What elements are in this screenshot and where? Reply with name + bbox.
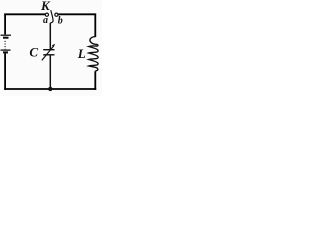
battery: cell1 short thick plate — [3, 37, 9, 39]
battery: dotted continuation — [4, 41, 6, 49]
svg-text:b: b — [58, 16, 63, 27]
capacitor variable arrow — [42, 46, 54, 60]
battery: cell2 short thick plate — [3, 51, 8, 53]
wire: right vertical upper (corner to coil) — [94, 14, 96, 38]
svg-text:C: C — [29, 44, 38, 59]
switch K contact b (circle) — [55, 13, 58, 16]
junction node dot — [48, 87, 52, 91]
background — [0, 0, 102, 96]
wire: top-right horizontal from contact b to right corner — [58, 13, 96, 15]
wire: capacitor branch upper (lever pivot to top plate) — [49, 23, 51, 49]
svg-text:L: L — [77, 46, 86, 61]
capacitor C top plate — [43, 49, 54, 51]
wire: left vertical upper (corner to battery) — [4, 14, 6, 35]
wire: top-left horizontal from left corner to switch contact a — [4, 13, 45, 15]
wire: right vertical lower (coil to bottom corner) — [94, 71, 96, 90]
switch K contact a (circle) — [45, 13, 48, 16]
battery: cell2 long thin plate — [1, 49, 11, 51]
wire: capacitor branch lower (bottom plate to bottom wire) — [49, 56, 51, 90]
inductor L coil — [89, 37, 98, 72]
svg-text:a: a — [43, 15, 48, 26]
switch K lever blade — [51, 10, 54, 23]
wire: left vertical lower (battery to bottom corner) — [4, 53, 6, 90]
battery: cell1 long thin plate — [1, 34, 12, 36]
svg-text:K: K — [40, 0, 51, 13]
capacitor C bottom plate — [43, 54, 54, 56]
wire: bottom horizontal — [4, 88, 96, 90]
